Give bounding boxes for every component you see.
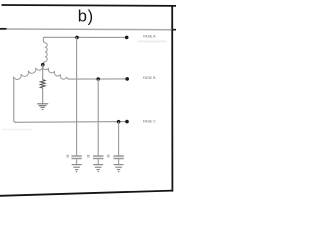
- faint artifact under label A: [138, 41, 167, 43]
- capacitor C2: [93, 156, 103, 164]
- ground symbol capacitor 2: [93, 165, 103, 172]
- capacitor C1: [71, 156, 81, 164]
- wire drop from FASE C to capacitor 3: [118, 122, 120, 156]
- bottom border line: [0, 191, 173, 196]
- wire resistor to ground: [42, 88, 44, 104]
- inductor L3 left diagonal coil: [13, 65, 43, 80]
- tiny value mark left of C1: [66, 155, 69, 157]
- wire FASE B horizontal: [68, 78, 127, 80]
- ground symbol capacitor 3: [114, 165, 124, 172]
- node N center junction dot: [41, 63, 45, 67]
- right border line: [171, 5, 173, 192]
- terminal dot FASE A end: [125, 36, 129, 40]
- header divider black left segment: [0, 28, 7, 30]
- terminal dot FASE C end: [125, 120, 129, 124]
- junction dot C: [117, 120, 121, 124]
- header divider black right segment: [172, 29, 177, 31]
- header divider gray line: [0, 28, 172, 31]
- wire drop from FASE A to capacitor 1: [76, 37, 78, 155]
- faint artifact bottom left: [2, 129, 32, 130]
- terminal dot FASE B end: [125, 77, 129, 81]
- svg-text:FASE B: FASE B: [143, 76, 156, 80]
- wire node to resistor: [42, 65, 44, 80]
- top border line: [2, 4, 177, 7]
- tiny value mark left of C2: [87, 155, 90, 157]
- tiny value mark left of C3: [107, 155, 110, 157]
- svg-text:b): b): [78, 8, 94, 26]
- resistor R neutral grounding: [40, 80, 45, 89]
- wire left vertical from L3 down to FASE C: [14, 78, 16, 122]
- svg-text:FASE C: FASE C: [143, 120, 156, 124]
- junction dot A: [75, 36, 79, 40]
- wire drop from FASE B to capacitor 2: [97, 79, 99, 156]
- junction dot B: [96, 77, 100, 81]
- inductor L2 right diagonal coil: [42, 65, 69, 80]
- ground symbol main: [37, 104, 48, 110]
- svg-text:FASE A: FASE A: [143, 34, 156, 38]
- inductor L1 vertical coil: [43, 37, 47, 63]
- capacitor C3: [113, 156, 123, 164]
- wire FASE A horizontal: [43, 36, 126, 38]
- wire FASE C horizontal: [15, 121, 127, 124]
- ground symbol capacitor 1: [72, 165, 82, 172]
